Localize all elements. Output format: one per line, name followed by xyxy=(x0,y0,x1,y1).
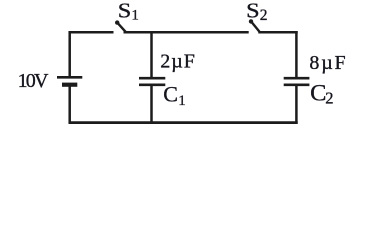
wire top middle segment S1 to S2 xyxy=(124,31,249,34)
battery V1 10V xyxy=(57,77,82,84)
svg-text:2: 2 xyxy=(325,89,333,108)
svg-text:1: 1 xyxy=(178,93,186,109)
wire top-right segment xyxy=(258,31,297,34)
switch S2 xyxy=(249,19,260,31)
wire middle vertical upper (node to C1) xyxy=(150,32,153,77)
wire bottom segment xyxy=(69,121,298,124)
wire right vertical lower xyxy=(295,86,298,124)
svg-text:1: 1 xyxy=(131,8,139,24)
svg-text:10V: 10V xyxy=(18,70,49,92)
wire left vertical upper xyxy=(68,31,71,76)
svg-text:2: 2 xyxy=(260,7,268,24)
capacitor C1 name label xyxy=(163,82,186,110)
wire top-left segment xyxy=(69,31,114,34)
capacitor C2 xyxy=(284,78,310,85)
svg-text:S: S xyxy=(118,0,132,23)
wire right vertical upper xyxy=(295,31,298,77)
svg-text:C: C xyxy=(163,82,178,107)
svg-text:8µF: 8µF xyxy=(309,52,347,74)
svg-text:2µF: 2µF xyxy=(160,50,196,72)
capacitor C2 name label xyxy=(310,80,333,107)
capacitor C1 xyxy=(139,78,165,85)
wire left vertical lower xyxy=(68,86,71,124)
switch S1 xyxy=(115,20,126,31)
label S2 xyxy=(246,0,267,24)
wire middle vertical lower (C1 to bottom) xyxy=(150,86,153,123)
label S1 xyxy=(118,0,139,24)
svg-text:S: S xyxy=(246,0,260,23)
svg-text:C: C xyxy=(310,80,326,105)
